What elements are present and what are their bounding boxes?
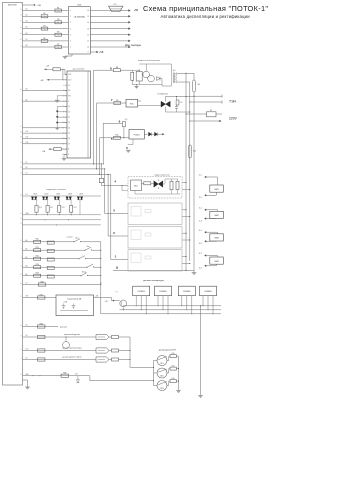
- svg-text:4-3: 4-3: [199, 268, 202, 270]
- svg-text:3: 3: [70, 22, 71, 24]
- svg-text:25: 25: [20, 274, 22, 276]
- svg-text:D2: D2: [68, 117, 70, 119]
- svg-text:R24: R24: [36, 273, 39, 275]
- svg-text:47: 47: [20, 296, 22, 298]
- svg-text:5-1: 5-1: [199, 175, 202, 177]
- svg-text:D0: D0: [68, 106, 70, 108]
- svg-text:+5В: +5В: [37, 5, 41, 7]
- svg-text:18: 18: [20, 167, 22, 169]
- svg-text:46: 46: [20, 194, 22, 196]
- svg-text:D6: D6: [26, 33, 28, 35]
- svg-text:D6: D6: [68, 138, 70, 140]
- svg-text:R31: R31: [40, 294, 43, 296]
- svg-text:датчик протечки воды: датчик протечки воды: [62, 348, 82, 350]
- svg-text:ВУ1: ВУ1: [160, 363, 163, 365]
- svg-text:D2: D2: [26, 9, 28, 11]
- svg-text:D1: D1: [68, 111, 70, 113]
- svg-text:D3: D3: [26, 14, 28, 16]
- svg-text:5-3: 5-3: [199, 220, 202, 222]
- svg-text:D3: D3: [26, 194, 28, 196]
- svg-text:5V: 5V: [26, 283, 28, 285]
- svg-text:+: +: [82, 254, 83, 256]
- svg-text:DS18B20: DS18B20: [183, 291, 190, 293]
- svg-text:14: 14: [87, 22, 89, 24]
- svg-text:LED4: LED4: [68, 194, 72, 196]
- svg-text:R30: R30: [40, 281, 43, 283]
- svg-text:40: 40: [20, 39, 22, 41]
- svg-text:10: 10: [20, 9, 22, 11]
- svg-text:LED2: LED2: [45, 194, 49, 196]
- svg-text:R12: R12: [180, 102, 183, 104]
- svg-text:R33: R33: [40, 323, 43, 325]
- svg-text:RS: RS: [68, 90, 70, 92]
- svg-text:ARDUINO: ARDUINO: [8, 4, 17, 7]
- svg-text:37: 37: [20, 335, 22, 337]
- svg-text:5-1: 5-1: [199, 208, 202, 210]
- svg-text:24: 24: [20, 173, 22, 175]
- svg-text:D5: D5: [68, 133, 70, 135]
- svg-text:D10: D10: [26, 349, 29, 351]
- svg-text:11: 11: [87, 41, 89, 43]
- svg-text:D5: D5: [26, 27, 28, 29]
- svg-text:Пр2: Пр2: [193, 151, 196, 153]
- svg-text:DS18B20: DS18B20: [204, 291, 211, 293]
- svg-text:D5: D5: [26, 162, 28, 164]
- svg-text:Пр1: Пр1: [197, 84, 200, 86]
- svg-text:R41: R41: [172, 365, 175, 367]
- svg-text:D4: D4: [68, 127, 70, 129]
- svg-text:4: 4: [70, 28, 71, 30]
- svg-text:проточный датчик: проточный датчик: [64, 333, 80, 336]
- svg-text:R40: R40: [172, 353, 175, 355]
- svg-text:ВУ3: ВУ3: [160, 388, 163, 390]
- svg-text:Схема принципальная "ПОТОК-1": Схема принципальная "ПОТОК-1": [143, 4, 268, 13]
- svg-text:D6: D6: [26, 167, 28, 169]
- svg-text:стабилизатор 5В: стабилизатор 5В: [67, 298, 82, 300]
- svg-text:34: 34: [20, 283, 22, 285]
- svg-text:R9: R9: [116, 100, 118, 102]
- svg-text:16: 16: [62, 154, 64, 156]
- svg-text:D4: D4: [26, 20, 28, 22]
- svg-text:24: 24: [20, 223, 22, 225]
- svg-text:PC814: PC814: [134, 135, 140, 137]
- svg-text:26: 26: [20, 325, 22, 327]
- svg-text:R2: R2: [43, 13, 45, 15]
- svg-text:D7: D7: [68, 143, 70, 145]
- svg-text:R13: R13: [74, 207, 77, 209]
- svg-text:12: 12: [87, 34, 89, 36]
- svg-text:кнопки: кнопки: [67, 236, 73, 238]
- svg-text:22: 22: [20, 21, 22, 23]
- svg-text:VSS: VSS: [68, 74, 71, 76]
- svg-text:LED5: LED5: [79, 194, 83, 196]
- svg-text:41: 41: [20, 240, 22, 242]
- svg-text:25: 25: [20, 374, 22, 376]
- svg-text:34: 34: [20, 33, 22, 35]
- svg-text:R11: R11: [116, 135, 119, 137]
- svg-text:Ввод: Ввод: [82, 271, 86, 273]
- svg-text:E: E: [68, 101, 69, 103]
- svg-text:3-2: 3-2: [199, 197, 202, 199]
- svg-text:R12: R12: [62, 207, 65, 209]
- svg-text:t°1: t°1: [115, 290, 117, 293]
- svg-text:4-2: 4-2: [199, 243, 202, 245]
- svg-text:LED3: LED3: [56, 194, 60, 196]
- svg-text:47: 47: [20, 45, 22, 47]
- svg-text:D11: D11: [26, 131, 29, 133]
- svg-text:индикаторы состояния: индикаторы состояния: [47, 189, 66, 191]
- svg-text:R8: R8: [116, 67, 118, 69]
- svg-text:датчик уровня спирта: датчик уровня спирта: [63, 357, 83, 359]
- svg-text:220V: 220V: [229, 116, 238, 120]
- svg-text:S1: S1: [210, 110, 212, 112]
- svg-text:14: 14: [20, 213, 22, 215]
- svg-text:28: 28: [20, 27, 22, 29]
- svg-text:D4: D4: [26, 358, 28, 360]
- svg-text:40: 40: [20, 89, 22, 91]
- svg-text:D8: D8: [26, 45, 28, 47]
- svg-text:16: 16: [20, 15, 22, 17]
- svg-text:DS18B20: DS18B20: [138, 291, 145, 293]
- svg-text:27: 27: [20, 126, 22, 128]
- svg-text:4-1: 4-1: [199, 253, 202, 255]
- svg-text:ULN2003A: ULN2003A: [74, 16, 85, 19]
- svg-text:9: 9: [88, 52, 89, 54]
- svg-text:R3: R3: [57, 19, 59, 21]
- svg-text:R5: R5: [57, 32, 59, 34]
- svg-text:17: 17: [20, 266, 22, 268]
- svg-text:10: 10: [87, 47, 89, 49]
- svg-text:R1: R1: [57, 7, 59, 9]
- svg-text:D7: D7: [26, 173, 28, 175]
- svg-text:LED1: LED1: [33, 194, 37, 196]
- svg-text:DS18B20: DS18B20: [159, 291, 166, 293]
- svg-text:4-1: 4-1: [199, 230, 202, 232]
- svg-text:датчики температуры: датчики температуры: [143, 280, 164, 282]
- svg-text:19: 19: [20, 218, 22, 220]
- svg-text:модуль управления: модуль управления: [154, 175, 169, 177]
- svg-text:D9: D9: [26, 335, 28, 337]
- svg-text:D3: D3: [68, 122, 70, 124]
- svg-text:+5В: +5В: [99, 51, 104, 54]
- svg-text:13: 13: [87, 28, 89, 30]
- svg-text:V0: V0: [68, 85, 70, 87]
- svg-text:33: 33: [20, 131, 22, 133]
- svg-text:R20: R20: [36, 239, 39, 241]
- svg-text:13: 13: [20, 162, 22, 164]
- svg-text:R6: R6: [43, 38, 45, 40]
- svg-text:5: 5: [70, 34, 71, 36]
- svg-text:R21: R21: [36, 247, 39, 249]
- svg-text:XP1: XP1: [114, 4, 117, 6]
- svg-text:D8: D8: [26, 325, 28, 327]
- svg-text:Пуск: Пуск: [75, 237, 79, 239]
- svg-text:Автоматика диспелляции и ректи: Автоматика диспелляции и ректификации: [161, 14, 250, 19]
- svg-text:2: 2: [70, 16, 71, 18]
- svg-text:дисплей 1602: дисплей 1602: [73, 68, 84, 71]
- svg-text:R42: R42: [172, 378, 175, 380]
- svg-text:импульсный блок питания: импульсный блок питания: [138, 59, 160, 62]
- svg-text:D13: D13: [26, 142, 29, 144]
- svg-text:R22: R22: [36, 256, 39, 258]
- svg-text:K: K: [68, 154, 69, 156]
- svg-text:+5В: +5В: [134, 9, 139, 12]
- svg-text:R7: R7: [57, 44, 59, 46]
- svg-text:R36: R36: [63, 373, 66, 375]
- svg-text:Тр1: Тр1: [173, 70, 176, 72]
- svg-text:15: 15: [87, 16, 89, 18]
- svg-text:43: 43: [20, 142, 22, 144]
- svg-text:16: 16: [87, 10, 89, 12]
- svg-text:датчик уровня НГГ: датчик уровня НГГ: [159, 349, 177, 351]
- svg-text:R11: R11: [50, 207, 53, 209]
- svg-text:R10: R10: [39, 207, 42, 209]
- svg-text:разъем: разъем: [60, 327, 67, 329]
- svg-text:D7: D7: [26, 39, 28, 41]
- svg-text:38: 38: [20, 137, 22, 139]
- svg-text:VIN: VIN: [26, 296, 29, 298]
- svg-text:T1 BTA16-600: T1 BTA16-600: [157, 92, 168, 95]
- svg-text:1: 1: [70, 10, 71, 12]
- svg-text:ВУ2: ВУ2: [160, 376, 163, 378]
- svg-text:6: 6: [70, 41, 71, 43]
- svg-text:R4: R4: [43, 26, 45, 28]
- svg-text:ТЭН: ТЭН: [229, 99, 237, 103]
- svg-text:Доп. выходы: Доп. выходы: [125, 43, 141, 47]
- svg-text:7: 7: [70, 47, 71, 49]
- svg-text:0: 0: [116, 266, 118, 270]
- svg-text:D12: D12: [26, 137, 29, 139]
- svg-text:R23: R23: [36, 264, 39, 266]
